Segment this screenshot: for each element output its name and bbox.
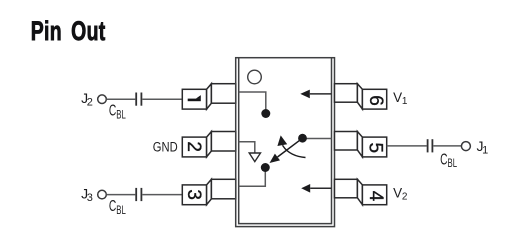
- wire pin 1 to node A: [239, 92, 266, 110]
- svg-text:J1: J1: [477, 138, 489, 157]
- svg-text:V1: V1: [393, 90, 408, 107]
- pin 3 lead (box, taper, inner lead): [182, 179, 235, 204]
- wire pin 6 input arrow V1: [300, 90, 331, 99]
- svg-text:4: 4: [365, 191, 386, 202]
- capacitor CBL (J1 row): [428, 139, 433, 152]
- open arrowhead on GND wire: [249, 153, 260, 162]
- node A (upper throw contact): [261, 109, 270, 118]
- svg-text:CBL: CBL: [109, 101, 126, 122]
- svg-text:GND: GND: [153, 139, 178, 154]
- wire pin 2 GND into body: [239, 142, 255, 153]
- svg-text:6: 6: [365, 95, 386, 106]
- svg-text:CBL: CBL: [109, 197, 126, 218]
- IC body U1 outline: [236, 58, 335, 227]
- label CBL (J1 row): [440, 150, 457, 171]
- pin 5 lead (inner lead, taper, box): [335, 132, 387, 157]
- terminal J2 label: [81, 90, 93, 108]
- wire pin 4 input arrow V2: [301, 184, 331, 193]
- pin 4 lead (inner lead, taper, box): [335, 179, 387, 204]
- label CBL (J3 row): [109, 197, 126, 218]
- svg-text:V2: V2: [393, 185, 408, 202]
- terminal J1 open circle: [461, 142, 470, 151]
- pin 1 index marker circle: [248, 70, 262, 84]
- wire pin 3 to node B: [239, 171, 266, 186]
- pin 6 lead (inner lead, taper, box): [335, 84, 387, 109]
- pin 1 number (rotated digit 1, no foot serif): [188, 95, 201, 101]
- pin 2 lead (box, taper, inner lead): [182, 132, 235, 157]
- svg-text:CBL: CBL: [440, 150, 457, 171]
- svg-text:3: 3: [183, 189, 204, 200]
- capacitor CBL (J2 row): [136, 93, 141, 106]
- wire pin 5 to CBL capacitor: [387, 145, 427, 147]
- capacitor CBL (J3 row): [136, 188, 141, 201]
- svg-text:J3: J3: [81, 186, 93, 204]
- terminal J2 open circle: [98, 95, 107, 104]
- common node (switch pole, pin 5): [298, 134, 307, 143]
- title Pin Out: [31, 16, 106, 46]
- label GND: [153, 139, 178, 154]
- terminal J1 label: [477, 138, 489, 157]
- label V1: [393, 90, 408, 107]
- wire CBL to pin 1: [142, 98, 182, 100]
- terminal J3 label: [81, 186, 93, 204]
- svg-text:2: 2: [183, 141, 204, 152]
- switch wiper arrow toward node B: [270, 138, 303, 163]
- pin 1 lead (box, taper, inner lead): [182, 84, 235, 109]
- label V2: [393, 185, 408, 202]
- terminal J3 open circle: [98, 190, 107, 199]
- label CBL (J2 row): [109, 101, 126, 122]
- switch travel curved arrow toward node A: [277, 135, 305, 157]
- wire pin 5 to common node: [303, 138, 332, 140]
- svg-text:5: 5: [365, 143, 386, 154]
- wire CBL to J1: [433, 145, 461, 147]
- wire J3 to CBL capacitor: [107, 194, 136, 196]
- node B (lower throw contact): [261, 163, 270, 172]
- svg-text:Pin Out: Pin Out: [31, 16, 106, 46]
- wire CBL to pin 3: [142, 194, 182, 196]
- svg-text:J2: J2: [81, 90, 93, 108]
- wire J2 to CBL capacitor: [107, 98, 136, 100]
